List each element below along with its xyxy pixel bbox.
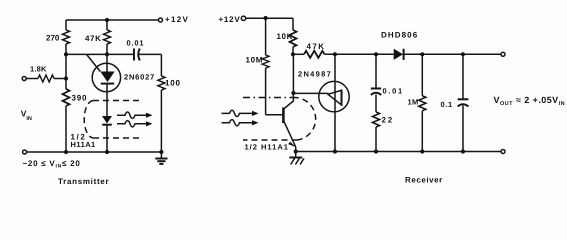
resistor 390: [63, 54, 88, 152]
node dot PUT anode: [105, 52, 109, 56]
node dot 2N4987 anode top: [333, 52, 337, 56]
svg-text:1/2 H11A1: 1/2 H11A1: [245, 142, 289, 151]
svg-text:0.01: 0.01: [383, 87, 404, 96]
svg-text:DHD806: DHD806: [381, 30, 418, 39]
op-amp circle PUT 2N6027: [92, 63, 120, 91]
light arrow 2 receiver: [222, 120, 259, 126]
wire gate 2N4987: [293, 92, 328, 94]
wire bottom rail receiver: [296, 151, 501, 153]
terminal +12V receiver: [241, 16, 245, 20]
capacitor 0.1: [441, 54, 469, 151]
diode DHD806: [381, 30, 501, 60]
svg-text:+12V: +12V: [165, 15, 189, 24]
node dot 1M top: [420, 52, 424, 56]
terminal output top: [501, 52, 505, 56]
wire collector riser: [284, 54, 294, 109]
svg-text:0.1: 0.1: [441, 100, 453, 109]
node dot ground junction transmitter: [159, 150, 163, 154]
svg-text:100: 100: [165, 78, 181, 87]
node dot 390 bottom: [64, 150, 68, 154]
terminal +12V transmitter: [159, 18, 163, 22]
dashed package outline receiver half: [243, 97, 316, 140]
wire bottom rail transmitter: [27, 151, 162, 153]
terminal output bottom: [501, 150, 505, 154]
node dot 22 bottom: [374, 149, 378, 153]
svg-text:0.01: 0.01: [127, 38, 145, 47]
ground transmitter: [155, 152, 167, 164]
node dot 270 bottom: [64, 52, 68, 56]
resistor 47K transmitter: [85, 20, 111, 54]
node dot 1.8K junction: [64, 76, 68, 80]
label 1/2 H11A1 receiver: [245, 142, 289, 151]
label +12V receiver: [219, 15, 241, 24]
svg-text:10M: 10M: [246, 55, 264, 64]
svg-text:2N4987: 2N4987: [298, 69, 332, 78]
light arrow 1 receiver: [222, 110, 259, 116]
label 1/2 H11A1 transmitter: [71, 132, 96, 149]
node dot emitter ground: [294, 149, 298, 153]
node dot 10K bottom: [291, 52, 295, 56]
svg-text:390: 390: [72, 94, 88, 103]
svg-text:10K: 10K: [277, 32, 293, 41]
node dot collector gate junction: [291, 91, 295, 95]
svg-text:H11A1: H11A1: [71, 140, 96, 149]
svg-text:47K: 47K: [307, 42, 326, 51]
resistor 10M: [246, 18, 270, 115]
capacitor 0.01 transmitter: [127, 38, 162, 60]
light arrow 2 transmitter: [117, 121, 153, 127]
node dot 0.1 top: [461, 52, 465, 56]
node dot 47K top: [105, 18, 109, 22]
terminal input bottom left: [23, 150, 27, 154]
label VOUT equation: [494, 95, 566, 107]
wire 2N4987 vertical: [334, 54, 336, 151]
LED of H11A1 transmitter: [102, 116, 112, 152]
node dot 0.1 bottom: [461, 149, 465, 153]
resistor 47K receiver: [293, 42, 394, 58]
label input range: [23, 159, 81, 170]
svg-text:1.8K: 1.8K: [30, 64, 47, 73]
light arrow 1 transmitter: [117, 112, 153, 118]
svg-text:270: 270: [46, 33, 60, 42]
svg-text:22: 22: [382, 115, 395, 124]
node dot 0.01 branch top: [374, 52, 378, 56]
resistor 10K: [277, 30, 297, 54]
dashed package outline transmitter half: [84, 101, 142, 139]
svg-text:2N6027: 2N6027: [124, 72, 155, 81]
wire +12V rail receiver: [246, 18, 293, 30]
capacitor 0.01 receiver with 22 resistor: [371, 54, 404, 151]
label +12V transmitter: [165, 15, 189, 24]
ground receiver: [289, 152, 304, 165]
svg-text:Transmitter: Transmitter: [58, 177, 109, 186]
resistor 1M: [408, 54, 426, 151]
resistor 100: [158, 54, 181, 152]
resistor 270: [46, 20, 70, 54]
transistor Q1 2N6027 PUT symbol: [87, 54, 156, 116]
svg-text:47K: 47K: [85, 34, 101, 43]
transistor 2N4987 SUS: [298, 69, 349, 112]
svg-text:+12V: +12V: [219, 15, 241, 24]
node dot LED cathode bottom: [105, 150, 109, 154]
node dot 2N4987 bottom: [333, 149, 337, 153]
label Transmitter: [58, 177, 109, 186]
svg-text:1M: 1M: [408, 97, 419, 106]
svg-text:Receiver: Receiver: [405, 175, 443, 184]
wire top rail transmitter: [66, 19, 159, 21]
transistor phototransistor H11A1: [266, 108, 296, 152]
node dot 10M top: [264, 16, 268, 20]
resistor 1.8K input: [22, 64, 66, 82]
label Receiver: [405, 175, 443, 184]
label VIN: [21, 108, 32, 122]
wire gate node row: [66, 53, 134, 55]
node dot 1M bottom: [420, 149, 424, 153]
